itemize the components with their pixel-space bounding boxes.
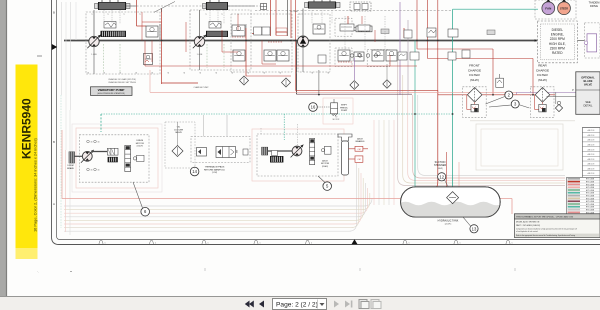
svg-text:A: A [53,202,55,206]
svg-text:HYD LINE: HYD LINE [586,201,595,203]
teal branch vertical [414,41,416,191]
small manifold symbol [261,4,267,10]
steer motor [562,0,566,2]
red horizontal to filters [296,89,438,91]
svg-text:CM: CM [357,159,360,161]
callout 13 [470,225,478,233]
drum motor flushing block [108,157,118,162]
case drain filter 3 [350,81,359,90]
wire red through charge filters [438,94,555,96]
extra red dash segments [232,36,246,38]
svg-text:HYD LINE: HYD LINE [586,184,595,186]
teal drop to drum group [100,114,102,132]
svg-text:MOTOR: MOTOR [321,163,330,165]
svg-text:HYD LINE: HYD LINE [586,196,595,198]
engine shaft arrowhead [535,39,538,42]
callout 3 [511,100,519,108]
color code legend [567,177,600,213]
svg-text:ABCDE: ABCDE [588,129,596,132]
axle brake actuator [262,147,268,155]
dashed verticals under banks [103,10,105,24]
svg-text:ABCDE: ABCDE [588,153,596,156]
vibratory pump label box [91,87,133,96]
svg-text:AXLE: AXLE [357,138,363,141]
svg-text:T1: T1 [189,14,191,16]
svg-text:FILTER: FILTER [537,73,548,77]
svg-text:SEE: SEE [585,100,590,104]
svg-text:SHIFT: SHIFT [341,105,348,107]
svg-text:TANDEM: TANDEM [589,0,600,4]
vibratory servo valve [313,24,325,34]
wire maroon horizontal mid [297,93,413,95]
small top right valve parts [350,2,371,11]
svg-text:ABCDE: ABCDE [588,172,596,175]
aux valve cluster right [372,50,384,61]
spool valve mid [356,26,372,32]
vibratory control valve bank 3 [308,2,336,9]
svg-text:CHARGE RELIEF SETTINGS: CHARGE RELIEF SETTINGS [108,81,136,84]
svg-text:CHARGE: CHARGE [536,68,549,72]
svg-text:MODEL ALSO SHOWN ON: MODEL ALSO SHOWN ON [516,221,540,224]
svg-text:13: 13 [472,226,477,231]
callout 16 [309,103,318,112]
svg-text:DETAIL: DETAIL [584,104,593,108]
main drive shaft line [64,40,536,42]
red short segs upper [252,32,268,34]
pink case drain line long [150,91,517,93]
border tick marks bottom [99,241,103,245]
wire dark vertical center [296,41,298,94]
axle speed boxes [270,156,283,163]
svg-text:VALVE: VALVE [175,131,182,134]
svg-text:HYD LINE: HYD LINE [586,198,595,200]
svg-text:FAN: FAN [545,7,551,11]
svg-text:CM: CM [357,149,360,151]
charge relief pump1 [104,22,116,29]
svg-text:ABCDE: ABCDE [588,158,596,161]
svg-text:HYD LINE: HYD LINE [586,182,595,184]
toolbar first page button [245,300,254,307]
border fold marker bottom [352,239,358,244]
svg-text:AXLE: AXLE [322,160,328,163]
diesel engine box [537,21,577,63]
toolbar layout icon 1 [359,299,367,308]
teal drop to axle group [283,114,285,140]
brake accumulator cylinder [338,134,352,141]
extra red stubs mid [374,30,376,42]
drum motor [82,151,92,161]
oil cooler bypass check [172,146,183,157]
svg-text:HYD LINE: HYD LINE [586,204,595,206]
fan motor [546,0,550,2]
callout 12 [438,173,446,181]
svg-text:ENGINE,: ENGINE, [551,33,564,37]
wire top dashed gray [255,10,452,12]
axle motor [292,146,302,156]
svg-text:FILTER: FILTER [469,73,480,77]
axle brake chamber 1 [355,146,363,151]
teal line top to fan [453,8,538,10]
drum motor enclosure [79,135,149,182]
steering unit box right edge [585,23,600,58]
servo valve pump1 [146,26,158,37]
brake wires [349,148,356,150]
svg-text:DIESEL: DIESEL [552,28,564,32]
case drain filter 1 [240,76,249,85]
pink return line long [62,198,512,200]
vibratory lower valves [338,50,350,61]
steering valve components [340,24,354,31]
red jog mid-left [137,25,147,27]
drum motor shaft [75,155,83,157]
svg-text:STEER: STEER [560,8,568,11]
svg-text:HYD LINE: HYD LINE [586,210,595,212]
toolbar prev page button [259,300,264,307]
red verticals right [416,0,418,49]
svg-text:KENR5940: KENR5940 [20,98,34,159]
return line corridor bundle left-bottom [64,198,372,206]
svg-text:STRAINER: STRAINER [434,164,446,167]
svg-text:HYD LINE: HYD LINE [586,190,595,192]
svg-text:30: 30 [98,142,100,144]
svg-text:COOLER: COOLER [174,129,184,131]
extra dark segments upper [159,24,161,41]
svg-text:(NLW): (NLW) [538,78,547,82]
svg-text:30: 30 [91,170,93,172]
callout 2 [505,91,513,99]
faint verticals mid [373,120,375,205]
solenoid pump1 lower [144,54,153,65]
axle dashed verticals [296,124,298,145]
svg-text:T1: T1 [107,14,109,16]
purple drop to diamond [353,58,355,80]
callout 5 [323,182,332,191]
svg-text:T1: T1 [299,14,301,16]
svg-text:HYD LINE: HYD LINE [586,207,595,209]
extra red verticals upper left [141,12,143,41]
svg-text:ABCDE: ABCDE [588,167,596,170]
suction strainer symbol [447,192,459,204]
pump group 2 enclosure [190,10,251,70]
shift pressure valve [331,103,338,114]
red line center tall [295,0,297,90]
faint nested rect right mid [476,124,563,170]
faint box around axle motor group [252,129,344,181]
wire purple to blade valve [517,91,576,93]
svg-text:OPTIONAL: OPTIONAL [581,76,595,80]
toolbar layout icon 2 [371,299,379,308]
purple vertical long [399,2,401,95]
gauge cluster B double [264,50,276,61]
svg-text:PRESS.: PRESS. [340,107,348,109]
axle aux valves [325,146,332,154]
pump1 servo bank [101,31,127,37]
svg-text:(NLW): (NLW) [470,78,479,82]
svg-text:CHARGE: CHARGE [468,68,481,72]
axle valve stack comb [310,139,315,165]
svg-text:(1/2M): (1/2M) [212,172,218,174]
axle brake chamber 2 [355,156,363,162]
svg-text:B: B [53,10,55,14]
green dashed verticals box2 [206,44,208,68]
svg-text:T1: T1 [221,14,223,16]
wire top thin join [126,5,206,7]
extra dark stubs upper [161,9,163,13]
svg-text:2300 RPM: 2300 RPM [550,46,565,50]
engine shaft arrow [536,40,537,42]
callout 14 [190,167,199,176]
svg-text:HYD LINE: HYD LINE [586,193,595,195]
red charge line long [145,65,417,67]
propel control valve bank 2 [206,2,228,10]
svg-text:PUMP: PUMP [341,110,348,112]
case drain filter 2 [282,78,291,87]
red lines into tank top [446,152,448,190]
callout 6 [141,207,150,216]
svg-text:16 Page, Color 2, (Dimensions:: 16 Page, Color 2, (Dimensions: 34 inches… [33,137,38,232]
drum brake actuator [69,152,75,163]
sensor dots drum [87,140,90,143]
svg-text:RATED: RATED [552,51,563,55]
svg-text:T1: T1 [91,14,93,16]
svg-text:HYD LINE: HYD LINE [586,179,595,181]
teal pilot line horizontal dashed [101,113,453,115]
pink outline shift valve cluster [323,98,353,124]
pump group 3 enclosure [298,14,330,72]
svg-text:REAR: REAR [538,64,547,68]
svg-text:PART # 247-HNE9 (CHECK): PART # 247-HNE9 (CHECK) [516,224,541,227]
axle motor shaft [268,150,293,152]
oil cooler enclosure [165,122,195,168]
green dashed verticals box1 [103,44,105,72]
extra valve squares upper mid [254,27,262,35]
svg-text:THIS SCHEMATIC IS FOR THE CP5: THIS SCHEMATIC IS FOR THE CP563C , CP533… [516,216,574,219]
svg-text:(24.5P.): (24.5P.) [445,224,452,226]
svg-text:MOTOR: MOTOR [136,143,145,145]
valve cluster enclosure B2 [335,48,352,67]
drum valve stack comb [125,145,131,171]
svg-text:16: 16 [311,105,316,110]
page border outer [52,0,600,245]
svg-text:MOTOR: MOTOR [333,119,340,121]
svg-text:Page: 2 (2 / 2): Page: 2 (2 / 2) [276,301,318,308]
svg-text:(REAR): (REAR) [322,165,329,168]
leader diagonal top left [154,2,175,13]
servo valve pump2 [232,25,245,36]
red component labels small [276,28,287,31]
valve cluster enclosure B1 [335,18,352,36]
bank top stubs [101,0,103,2]
propel pump 1 [89,36,99,46]
svg-text:FRONT: FRONT [469,64,480,68]
svg-text:2200 RPM: 2200 RPM [550,37,565,41]
faint box around drum motor group [76,128,158,188]
small gray boxes [381,29,389,34]
filter connect wires [547,96,576,98]
svg-text:BRAKES: BRAKES [356,140,365,143]
svg-text:ABCDE: ABCDE [588,143,596,146]
svg-text:ABCDE: ABCDE [588,163,596,166]
valve cluster enclosure A [231,14,292,72]
relief valve right pair [427,28,436,37]
svg-text:T1: T1 [315,14,317,16]
border fold marker left [52,44,57,50]
axle motor enclosure [257,134,338,176]
parts list table [582,128,600,186]
svg-text:BRAKE: BRAKE [67,167,74,170]
svg-text:B: B [53,140,55,144]
toolbar last page button disabled [345,300,352,307]
small connection dots [161,40,163,42]
pump group 1 enclosure [86,12,160,74]
pump2 servo bank [206,31,228,37]
front charge filter [463,87,487,118]
tiny circles row [350,54,354,58]
extra dashed verticals mid top [344,16,346,50]
svg-text:HYD LINE: HYD LINE [586,187,595,189]
margin tick top [37,55,42,57]
rear filter outlet symbol [555,104,562,111]
svg-text:THERMAL BYPASS: THERMAL BYPASS [205,166,225,169]
callout leader lines [486,97,505,105]
red supply lines top [136,0,138,26]
svg-text:(1642F): (1642F) [137,146,144,148]
svg-text:30: 30 [91,142,93,144]
vibratory pump 3 [298,36,309,47]
fan steer enclosure [535,0,576,19]
thermal bypass spool valve [216,147,236,158]
svg-text:VIBRATORY PUMP: VIBRATORY PUMP [98,88,125,92]
svg-text:T1: T1 [123,14,125,16]
toolbar next page button disabled [334,300,339,307]
left margin faint lines [60,95,62,228]
svg-text:BLADE: BLADE [584,79,593,83]
svg-text:CHARGE PUMP: CHARGE PUMP [194,86,210,89]
thermal bypass check valve [197,148,207,157]
rear charge filter [530,87,554,118]
case drain filter 4 [383,80,391,88]
front filter inlet component [496,78,504,87]
drum motor case symbol [137,155,145,161]
dark drop to pink line [318,70,320,95]
svg-text:ABCDE: ABCDE [588,148,596,151]
svg-text:30: 30 [98,170,100,172]
thermal bypass manifold box [191,136,250,162]
red to rear filter [428,58,534,60]
svg-text:14: 14 [192,169,197,174]
red return long [420,90,438,190]
svg-text:P: P [572,88,574,92]
svg-text:DRUM: DRUM [137,140,144,142]
svg-text:12: 12 [439,174,444,179]
gauge cluster A [233,50,245,61]
thermal bypass small outlet [243,149,248,155]
red to front filter [417,48,493,50]
extra tiny valve symbols right mid [398,52,407,60]
svg-text:ABCDE: ABCDE [588,134,596,137]
svg-text:T1: T1 [205,14,207,16]
teal line vertical to tank [452,9,454,191]
svg-text:HYDRAULIC TANK: HYDRAULIC TANK [438,220,459,223]
toolbar page input [273,298,327,309]
extra red horizontals upper left [142,21,162,23]
disclaimer note box [514,214,600,238]
propel control valve bank 1 [98,2,126,10]
yellow part number sticker [16,65,38,249]
drum speed sensor [107,148,118,155]
servo valve pump2b [209,22,221,29]
left margin faint verticals [61,2,63,95]
svg-text:(NLW): (NLW) [437,168,443,170]
svg-text:DRIVE: DRIVE [590,4,598,8]
page border inner [57,0,600,240]
svg-text:34.5 BAR: 34.5 BAR [290,10,299,13]
return line corridor bundle right of tank [398,60,565,186]
thermal bypass inlet wires [203,115,205,136]
optional blade valve box [576,72,600,115]
svg-text:RETURN MANIFOLD: RETURN MANIFOLD [204,168,225,171]
svg-text:VALVE: VALVE [584,83,593,87]
svg-text:CHARGE 24.5 BAR (355 PSI): CHARGE 24.5 BAR (355 PSI) [108,78,136,81]
viewer left edge strip [0,0,6,310]
svg-text:(HIGH PRESSURE VIBRATION): (HIGH PRESSURE VIBRATION) [97,92,125,95]
valve cluster enclosure B3 [367,50,390,67]
propel pump 2 [194,36,204,46]
svg-text:HIGH IDLE,: HIGH IDLE, [549,42,566,46]
svg-text:T1: T1 [139,14,141,16]
svg-text:T1: T1 [237,14,239,16]
svg-text:ABCDE: ABCDE [588,139,596,142]
